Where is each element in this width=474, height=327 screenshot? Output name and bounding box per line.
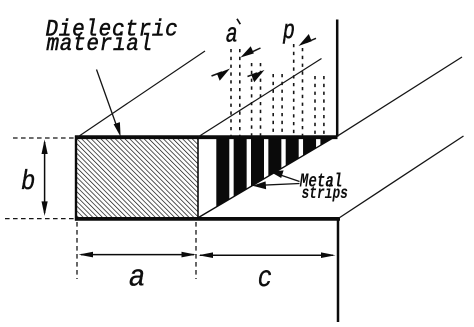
dashed b extension top [13,137,75,139]
svg-text:a: a [226,20,238,49]
svg-text:p: p [282,17,295,46]
dimension c arrow [199,252,336,258]
small arrow B (a' right) [241,46,261,57]
wire: depth edge D4a from opening top-right [337,57,462,136]
wire: face bottom edge [75,217,340,221]
svg-text:material: material [47,31,153,57]
dashed a extension left [76,222,78,279]
svg-text:strips: strips [302,183,348,203]
wire: right wall front edge lower [337,218,340,323]
small arrow C (p left) [248,70,265,82]
leader arrow from Dielectric label [97,70,121,137]
dashed a extension right [195,222,197,279]
small arrow D (p right) [299,34,317,46]
wire: dielectric/strip boundary [197,137,199,218]
wire: face left edge [75,136,77,221]
wire: right wall front edge upper [336,20,339,137]
wire: depth edge D2 from boundary top [198,59,322,138]
dielectric hatched region [76,137,198,219]
dimension b arrow [42,140,48,216]
svg-text:b: b [21,166,35,198]
wire: face top edge [75,135,338,139]
dashed b extension bottom [5,218,75,220]
svg-text:a: a [129,259,146,295]
dashed strip extension lines (a' and p) [231,44,324,136]
wire: depth edge D3 from top-left corner [77,51,205,138]
wire: strips diagonal D1 [199,136,337,217]
metal strip bars [216,139,333,220]
leader arrows from Metal strips label [253,170,300,189]
dimension a arrow [79,252,197,258]
wire: depth edge D4b from opening bottom-right [339,136,464,218]
svg-text:c: c [258,262,272,296]
small arrow A (a' left) [212,69,231,81]
